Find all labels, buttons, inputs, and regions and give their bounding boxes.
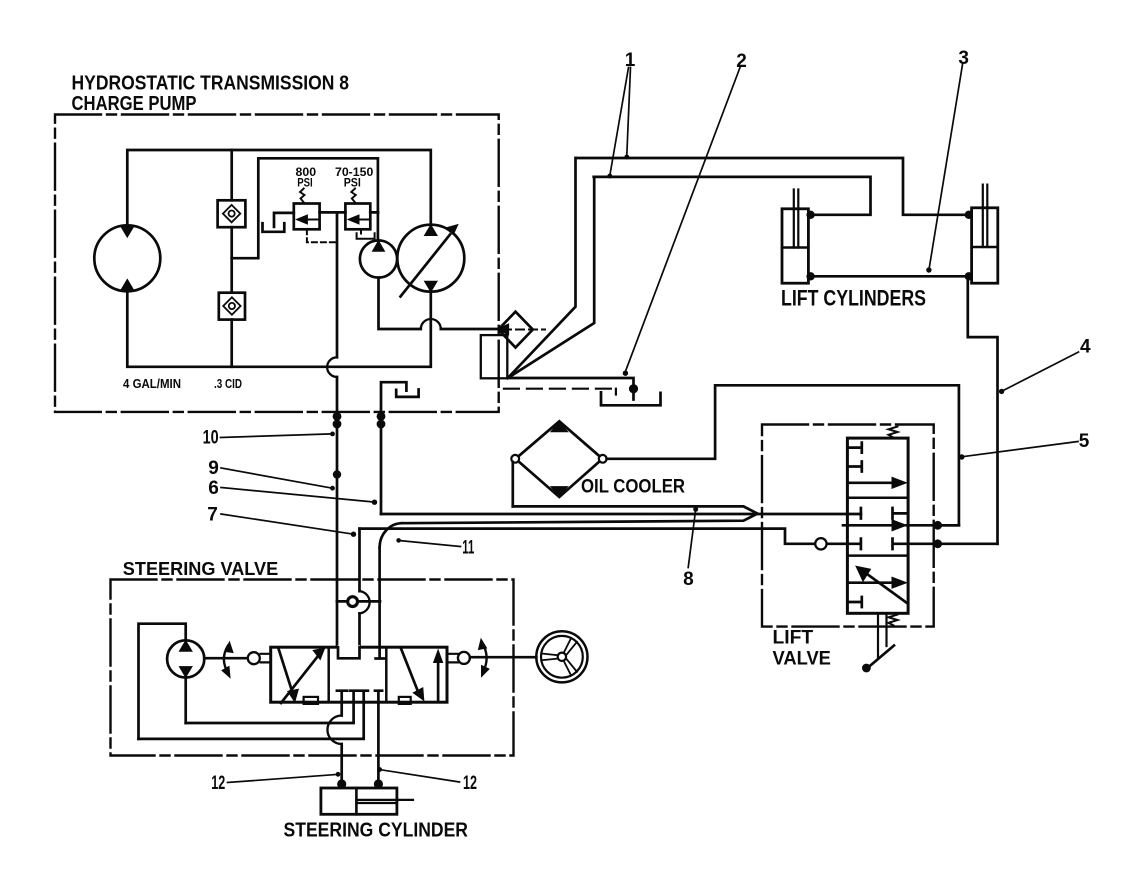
svg-text:4: 4 (1080, 337, 1091, 358)
svg-text:4 GAL/MIN: 4 GAL/MIN (123, 376, 181, 391)
svg-text:10: 10 (203, 428, 219, 449)
svg-text:2: 2 (736, 51, 747, 72)
svg-text:LIFT CYLINDERS: LIFT CYLINDERS (781, 285, 926, 310)
svg-text:.3 CID: .3 CID (214, 376, 242, 391)
svg-text:12: 12 (211, 773, 225, 794)
svg-text:11: 11 (462, 538, 474, 559)
svg-text:CHARGE PUMP: CHARGE PUMP (72, 93, 197, 115)
svg-text:HYDROSTATIC TRANSMISSION 8: HYDROSTATIC TRANSMISSION 8 (72, 73, 350, 95)
svg-text:3: 3 (958, 48, 969, 69)
svg-text:VALVE: VALVE (773, 648, 831, 670)
svg-text:STEERING CYLINDER: STEERING CYLINDER (284, 819, 469, 842)
svg-text:12: 12 (463, 773, 477, 794)
svg-text:6: 6 (208, 478, 219, 499)
svg-text:OIL COOLER: OIL COOLER (581, 477, 685, 498)
svg-text:7: 7 (207, 505, 218, 526)
svg-text:PSI: PSI (344, 176, 361, 190)
svg-text:PSI: PSI (297, 176, 313, 190)
svg-text:STEERING VALVE: STEERING VALVE (123, 558, 278, 579)
svg-text:9: 9 (208, 458, 219, 479)
svg-text:8: 8 (683, 569, 694, 590)
svg-text:LIFT: LIFT (773, 626, 814, 648)
svg-text:1: 1 (625, 50, 636, 71)
svg-text:5: 5 (1079, 431, 1090, 452)
